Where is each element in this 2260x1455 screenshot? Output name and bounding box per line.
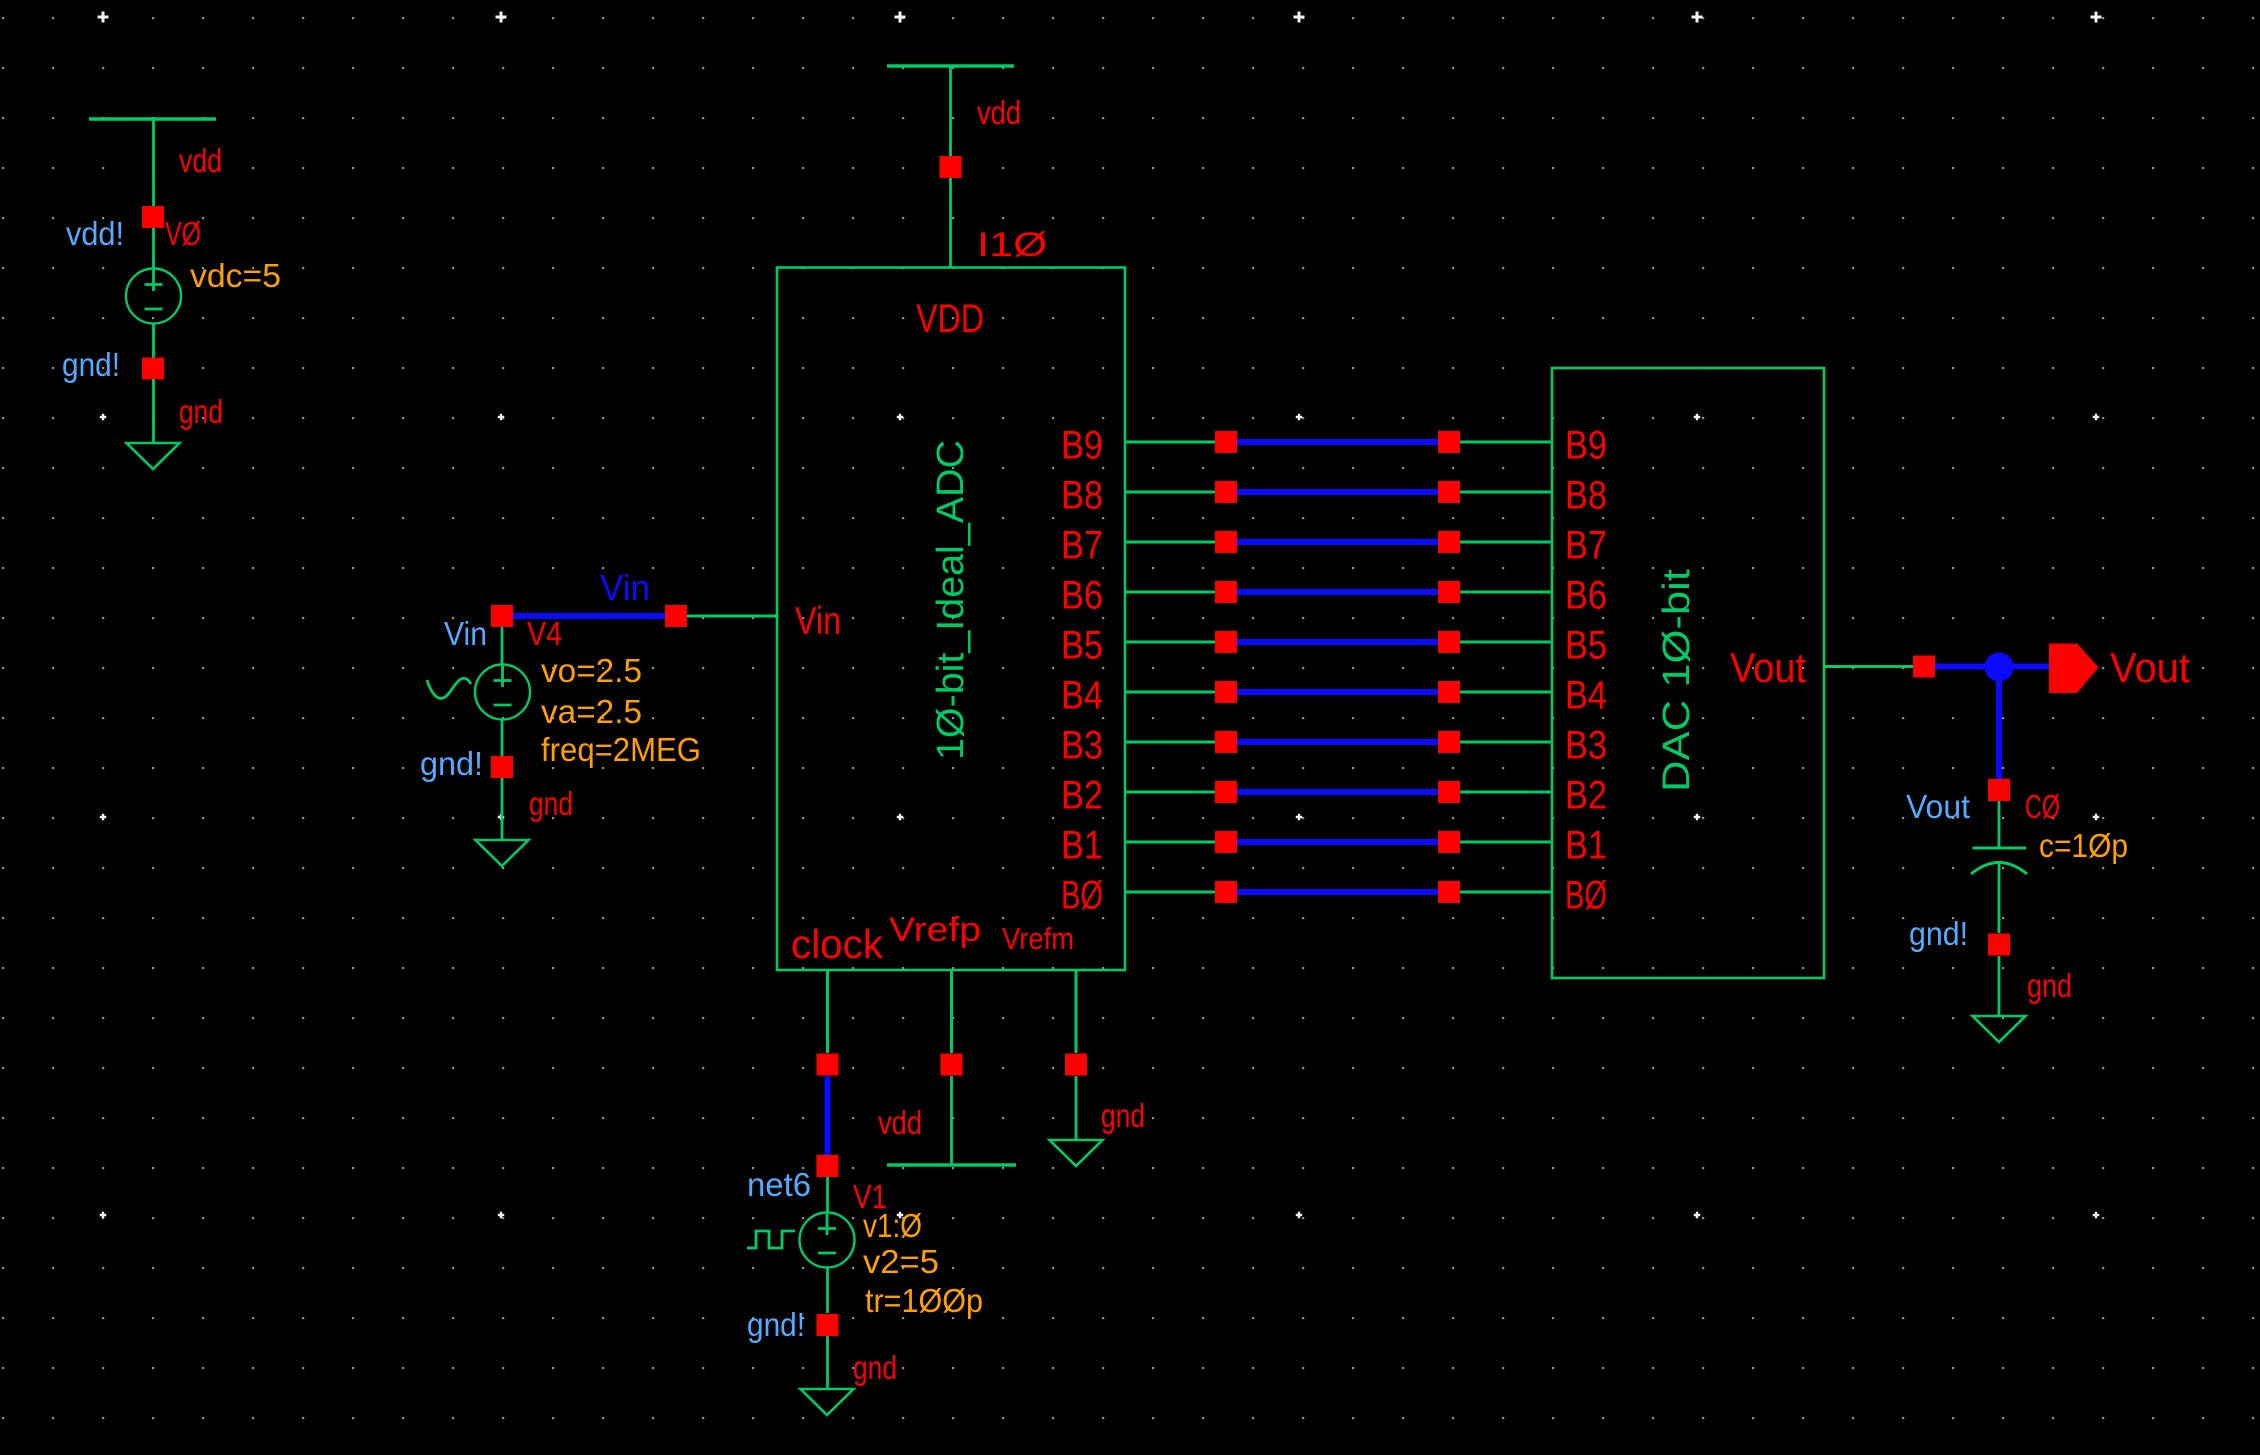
capacitor C0 [1971, 848, 2027, 933]
wire B2 DAC stub [1460, 791, 1552, 794]
wire B5 ADC stub [1125, 641, 1215, 644]
wire B7 DAC stub [1460, 541, 1552, 544]
wire Vout (blue) [1935, 664, 2049, 670]
svg-text:B3: B3 [1061, 724, 1103, 768]
wire clock pin lead [826, 970, 829, 1053]
terminal square clock pin [817, 1054, 839, 1076]
svg-text:v2=5: v2=5 [863, 1243, 939, 1280]
wire B3 ADC stub [1125, 741, 1215, 744]
wire B3 DAC stub [1460, 741, 1552, 744]
wire net6 (blue) [825, 1076, 831, 1155]
terminal square B8 (DAC side) [1438, 481, 1460, 503]
svg-text:Vout: Vout [1730, 644, 1806, 691]
terminal square B1 (ADC side) [1215, 831, 1237, 853]
svg-text:B3: B3 [1565, 724, 1607, 768]
svg-text:B5: B5 [1565, 624, 1607, 668]
terminal square B4 (DAC side) [1438, 681, 1460, 703]
wire B4 bus (blue) [1237, 689, 1438, 695]
wire B1 bus (blue) [1237, 839, 1438, 845]
wire Vrefp to vdd [950, 1076, 953, 1164]
wire V0 minus lead [152, 324, 155, 359]
terminal square B7 (ADC side) [1215, 531, 1237, 553]
svg-text:va=2.5: va=2.5 [541, 693, 642, 730]
terminal square B3 (ADC side) [1215, 731, 1237, 753]
svg-text:Vin: Vin [600, 567, 650, 608]
wire B6 ADC stub [1125, 591, 1215, 594]
terminal square ADC VDD pin [940, 156, 962, 178]
svg-text:gnd!: gnd! [62, 346, 120, 383]
wire B2 bus (blue) [1237, 789, 1438, 795]
terminal square B9 (DAC side) [1438, 431, 1460, 453]
terminal square B0 (DAC side) [1438, 881, 1460, 903]
svg-text:V4: V4 [527, 615, 562, 652]
wire V4 plus lead [501, 627, 504, 665]
svg-text:Vin: Vin [795, 600, 841, 643]
terminal square B3 (DAC side) [1438, 731, 1460, 753]
terminal square Vrefp pin [941, 1054, 963, 1076]
svg-text:net6: net6 [747, 1166, 811, 1203]
svg-text:gnd: gnd [529, 785, 573, 822]
wire B0 ADC stub [1125, 891, 1215, 894]
wire B9 ADC stub [1125, 441, 1215, 444]
output pin symbol Vout [2049, 644, 2099, 694]
svg-text:gnd: gnd [853, 1349, 897, 1386]
terminal square B1 (DAC side) [1438, 831, 1460, 853]
wire B4 ADC stub [1125, 691, 1215, 694]
svg-text:B2: B2 [1061, 774, 1103, 818]
pulse wave symbol (V1) [747, 1231, 795, 1248]
svg-text:BØ: BØ [1061, 874, 1103, 918]
wire Vrefm to ground [1075, 1076, 1078, 1140]
svg-text:gnd!: gnd! [1909, 915, 1968, 952]
wire V4 minus lead [501, 720, 504, 757]
svg-text:tr=1ØØp: tr=1ØØp [865, 1282, 983, 1319]
svg-text:gnd!: gnd! [420, 745, 483, 782]
terminal square V4 minus [491, 756, 513, 778]
svg-text:gnd: gnd [179, 393, 223, 430]
ground symbol (C0 branch) [1973, 1016, 2026, 1042]
svg-text:Vout: Vout [2110, 644, 2190, 691]
wire V1 minus lead [826, 1268, 829, 1314]
svg-text:gnd: gnd [2027, 967, 2072, 1004]
wire B2 ADC stub [1125, 791, 1215, 794]
svg-text:B4: B4 [1565, 674, 1607, 718]
junction dot Vout node [1985, 653, 2014, 682]
svg-text:vdd: vdd [977, 94, 1021, 131]
wire B1 ADC stub [1125, 841, 1215, 844]
wire B9 bus (blue) [1237, 439, 1438, 445]
terminal square V0 minus [142, 358, 164, 380]
op-amp/block 10-bit Ideal ADC I10 [777, 268, 1125, 971]
wire V4 to ground [501, 778, 504, 840]
terminal square Vout (DAC side) [1913, 656, 1935, 678]
wire B5 DAC stub [1460, 641, 1552, 644]
svg-text:vdd!: vdd! [66, 215, 124, 252]
wire Vrefm pin lead [1075, 970, 1078, 1053]
wire vdd to V0 [152, 120, 155, 206]
terminal square B2 (ADC side) [1215, 781, 1237, 803]
power vdd rail symbol (V0 top) [89, 117, 216, 120]
svg-text:CØ: CØ [2025, 788, 2060, 825]
wire Vout DAC stub [1824, 665, 1913, 668]
power vdd rail symbol (I10 top) [887, 64, 1014, 67]
wire C0 to ground [1998, 956, 2001, 1016]
svg-text:Vout: Vout [1906, 788, 1970, 825]
terminal square B6 (DAC side) [1438, 581, 1460, 603]
terminal square B5 (ADC side) [1215, 631, 1237, 653]
terminal square Vrefm pin [1065, 1054, 1087, 1076]
wire V1 plus lead [826, 1177, 829, 1213]
wire B7 bus (blue) [1237, 539, 1438, 545]
svg-text:c=1Øp: c=1Øp [2039, 827, 2128, 864]
wire V0 plus lead [152, 228, 155, 269]
svg-text:B5: B5 [1061, 624, 1103, 668]
pulse voltage source V1 [800, 1213, 855, 1268]
svg-text:vdc=5: vdc=5 [190, 257, 281, 294]
terminal square B8 (ADC side) [1215, 481, 1237, 503]
wire B0 DAC stub [1460, 891, 1552, 894]
svg-text:1Ø-bit_Ideal_ADC: 1Ø-bit_Ideal_ADC [930, 440, 972, 760]
terminal square B5 (DAC side) [1438, 631, 1460, 653]
wire V0 to ground [152, 379, 155, 443]
terminal square V4 plus [491, 605, 513, 627]
svg-text:B7: B7 [1565, 524, 1607, 568]
svg-text:B7: B7 [1061, 524, 1103, 568]
wire B8 bus (blue) [1237, 489, 1438, 495]
wire B4 DAC stub [1460, 691, 1552, 694]
svg-text:vdd: vdd [179, 142, 222, 179]
wire B6 bus (blue) [1237, 589, 1438, 595]
wire B5 bus (blue) [1237, 639, 1438, 645]
terminal square B9 (ADC side) [1215, 431, 1237, 453]
wire B9 DAC stub [1460, 441, 1552, 444]
svg-text:VØ: VØ [165, 215, 201, 252]
svg-text:BØ: BØ [1565, 874, 1607, 918]
svg-text:vdd: vdd [878, 1104, 922, 1141]
svg-text:B6: B6 [1061, 574, 1103, 618]
terminal square V1 minus [817, 1314, 839, 1336]
svg-text:B8: B8 [1565, 474, 1607, 518]
wire vdd to ADC VDD pin [949, 67, 952, 156]
svg-text:B1: B1 [1061, 824, 1103, 868]
sine wave symbol (V4) [427, 678, 471, 698]
ground symbol (Vrefm branch) [1050, 1140, 1103, 1166]
terminal square B6 (ADC side) [1215, 581, 1237, 603]
svg-text:Vin: Vin [444, 615, 487, 652]
svg-text:VDD: VDD [916, 297, 984, 341]
svg-text:vo=2.5: vo=2.5 [541, 652, 642, 689]
wire B3 bus (blue) [1237, 739, 1438, 745]
svg-text:B1: B1 [1565, 824, 1607, 868]
svg-text:B2: B2 [1565, 774, 1607, 818]
wire C0 top lead [1998, 801, 2001, 848]
svg-text:B9: B9 [1565, 424, 1607, 468]
ground symbol (V0 branch) [127, 443, 180, 469]
svg-text:Vrefm: Vrefm [1002, 921, 1074, 956]
terminal square B2 (DAC side) [1438, 781, 1460, 803]
svg-text:v1:Ø: v1:Ø [863, 1207, 922, 1244]
svg-text:B9: B9 [1061, 424, 1103, 468]
wire Vin to ADC pin [687, 615, 777, 618]
terminal square B4 (ADC side) [1215, 681, 1237, 703]
terminal square C0 bottom [1988, 934, 2010, 956]
svg-text:gnd: gnd [1101, 1097, 1145, 1134]
svg-text:B4: B4 [1061, 674, 1103, 718]
ground symbol (V1 branch) [801, 1389, 854, 1415]
terminal square V1 plus [817, 1155, 839, 1177]
terminal square C0 top [1988, 779, 2010, 801]
wire Vrefp pin lead [950, 970, 953, 1053]
svg-text:gnd!: gnd! [747, 1306, 805, 1343]
wire Vout to C0 (blue) [1996, 667, 2002, 779]
wire V1 to ground [826, 1336, 829, 1389]
svg-text:clock: clock [791, 921, 883, 967]
sine voltage source V4 [475, 665, 530, 720]
wire B8 DAC stub [1460, 491, 1552, 494]
power vdd rail symbol (Vrefp) [887, 1163, 1016, 1166]
wire Vin (blue) [513, 613, 665, 619]
svg-text:B8: B8 [1061, 474, 1103, 518]
wire B0 bus (blue) [1237, 889, 1438, 895]
wire B1 DAC stub [1460, 841, 1552, 844]
dc voltage source V0 [126, 269, 181, 324]
wire B7 ADC stub [1125, 541, 1215, 544]
svg-text:Vrefp: Vrefp [889, 911, 981, 949]
svg-text:I1Ø: I1Ø [977, 226, 1047, 264]
ground symbol (V4 branch) [476, 840, 529, 866]
svg-text:freq=2MEG: freq=2MEG [541, 731, 701, 768]
terminal square Vin wire end [665, 605, 687, 627]
block DAC 10-bit [1552, 368, 1824, 978]
terminal square B7 (DAC side) [1438, 531, 1460, 553]
wire B8 ADC stub [1125, 491, 1215, 494]
terminal square V0 plus [142, 206, 164, 228]
wire B6 DAC stub [1460, 591, 1552, 594]
svg-text:B6: B6 [1565, 574, 1607, 618]
svg-text:DAC 1Ø-bit: DAC 1Ø-bit [1656, 569, 1698, 792]
wire ADC VDD pin lead [949, 178, 952, 267]
terminal square B0 (ADC side) [1215, 881, 1237, 903]
